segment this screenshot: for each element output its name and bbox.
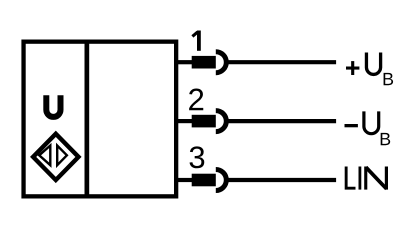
pin 1 socket arc	[216, 52, 227, 73]
pin 2 wire	[226, 119, 336, 123]
sensor body outline	[24, 42, 177, 197]
pin 3 number	[190, 146, 205, 168]
label -UB : U	[364, 111, 379, 133]
label -UB : minus sign	[345, 124, 358, 127]
label +UB : subscript B	[384, 73, 394, 85]
label LIN : N	[366, 167, 387, 190]
pin 3 socket arc	[216, 170, 227, 191]
label +UB : plus sign	[346, 61, 359, 75]
transducer right triangle	[57, 146, 67, 166]
label U (output stage)	[46, 95, 60, 117]
pin 3 contact rect	[192, 174, 216, 187]
pin 2 contact rect	[192, 115, 216, 128]
pin 2 number	[189, 89, 203, 111]
pin 1 number	[192, 31, 200, 51]
transducer diamond symbol	[33, 134, 78, 180]
pin 1 wire	[226, 60, 336, 64]
pin 1 contact rect	[192, 56, 216, 69]
label LIN : I	[358, 167, 361, 190]
label LIN : L	[346, 167, 355, 189]
pin 3 wire	[226, 178, 336, 182]
pin 2 stub wire	[176, 119, 192, 123]
body divider line	[84, 42, 89, 197]
pin 3 stub wire	[176, 178, 192, 182]
label +UB : U	[366, 53, 380, 75]
pin 1 stub wire	[176, 60, 192, 64]
label -UB : subscript B	[381, 133, 391, 145]
pin 2 socket arc	[216, 111, 227, 132]
transducer left triangle	[39, 146, 50, 166]
